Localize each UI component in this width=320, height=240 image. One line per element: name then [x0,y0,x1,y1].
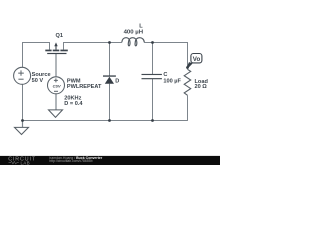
svg-text:D = 0.4: D = 0.4 [64,101,83,107]
ground (PWM source) [49,110,63,117]
wire capacitor branch vertical [152,42,154,121]
svg-text:400 µH: 400 µH [124,30,144,36]
svg-text:Vo: Vo [193,56,201,63]
node Vo flag [186,54,202,69]
svg-text:PWLREPEAT: PWLREPEAT [67,84,102,90]
ground (main, bottom left) [15,127,29,134]
wire PWM ground stub [55,94,57,110]
wire bottom rail [22,120,188,122]
body stub with arrow [55,46,57,50]
svg-text:20 Ω: 20 Ω [195,84,208,90]
junction dot inductor/cap top [151,41,154,44]
svg-text:LAB: LAB [21,160,31,165]
junction dot left bottom [21,119,24,122]
inductor L [122,38,145,46]
junction dot cap bottom [151,119,154,122]
wire top middle (switch node to inductor) [64,42,122,44]
svg-text:http://circuitlab.com/c78655b: http://circuitlab.com/c78655b [49,159,92,163]
junction dot diode bottom [108,119,111,122]
gate bar [47,53,66,54]
svg-text:C: C [163,72,167,78]
PWM source (CSV) [48,77,65,94]
resistor Load [184,69,191,95]
capacitor C [142,74,162,79]
svg-text:CSV: CSV [53,84,61,89]
junction dot diode top [108,41,111,44]
transistor Q1 [45,42,68,54]
wire diode branch vertical [109,42,111,121]
wire inductor to right corner [144,42,187,44]
voltage source V1 (Source 50V) [14,67,31,84]
svg-text:Q1: Q1 [56,33,63,39]
wire gate lead [55,54,57,77]
drain stub [49,42,51,50]
svg-text:50 V: 50 V [32,78,44,84]
wire left rail vertical [22,42,24,121]
wire top-left horizontal [22,42,50,44]
svg-text:100 µF: 100 µF [163,78,181,84]
diode D [103,75,116,83]
wire main ground stub [22,121,24,128]
svg-text:D: D [115,79,119,85]
source stub [63,42,65,50]
footer bar [0,156,220,165]
wire right rail vertical [187,42,189,121]
channel contact bars [45,50,51,52]
